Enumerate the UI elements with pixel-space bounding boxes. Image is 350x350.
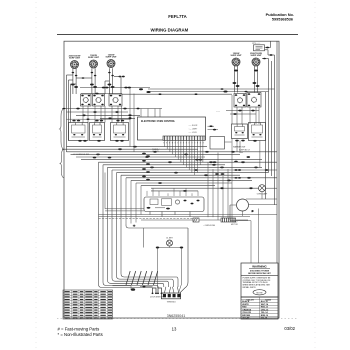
- surface element right-front: [250, 53, 262, 66]
- harness wire: [117, 173, 174, 287]
- switch selector switch left: [69, 123, 89, 141]
- EOC pin drops: [163, 140, 165, 146]
- fold line right: [314, 2, 316, 348]
- left feeder y93.5: [81, 93, 122, 95]
- svg-text:SURF UNIT: SURF UNIT: [105, 57, 117, 59]
- table corner step: [113, 285, 132, 287]
- svg-text:VIO-18: VIO-18: [261, 318, 268, 320]
- EOC pin numbers: [164, 142, 205, 144]
- inter-row links right: [226, 110, 259, 112]
- long run A: [99, 214, 278, 216]
- svg-text:○ OVEN FUSE: ○ OVEN FUSE: [203, 225, 216, 227]
- jog wire x121: [120, 77, 122, 95]
- leads element LR: [91, 68, 93, 94]
- left bus feeders: [66, 75, 68, 152]
- svg-text:13: 13: [172, 327, 177, 332]
- surface element left-rear: [88, 55, 100, 68]
- long run B: [99, 216, 251, 218]
- svg-text:✚: ✚: [133, 224, 136, 228]
- wire run: [117, 172, 269, 174]
- wire row1-row2 right: [258, 107, 260, 124]
- switch warmer switch: [232, 124, 248, 139]
- lamp feed 1: [246, 198, 277, 200]
- svg-text:* = Non-Illustrated Parts: * = Non-Illustrated Parts: [58, 332, 103, 337]
- svg-text:WHT-14: WHT-14: [261, 303, 269, 306]
- relay board: [144, 197, 204, 212]
- switch switch right outer: [249, 123, 266, 141]
- switch infinite switch RF: [247, 93, 261, 108]
- left feeder y87.5: [80, 87, 150, 89]
- color code table: [241, 297, 278, 319]
- svg-text:RED: RED: [242, 307, 247, 309]
- svg-text:NOTE: NOTE: [256, 292, 263, 294]
- left brace 1: [60, 109, 65, 150]
- wire run: [131, 179, 252, 181]
- svg-text:○— LIGHT: ○— LIGHT: [189, 129, 199, 131]
- fold line left: [35, 2, 37, 348]
- left brace 2: [60, 149, 64, 178]
- switch infinite switch RR: [109, 94, 122, 106]
- harness wire: [112, 170, 169, 287]
- wire row1-row2: [117, 106, 119, 123]
- wire row1-row2: [94, 106, 96, 123]
- right bus wires: [268, 59, 270, 173]
- wire chart table: [63, 290, 113, 319]
- wire row1-row2: [87, 106, 89, 123]
- wire run: [67, 146, 208, 148]
- feeder run upper: [148, 88, 275, 90]
- wire row1-row2: [82, 106, 84, 123]
- svg-text:DL MTR: DL MTR: [166, 238, 173, 240]
- right switch drops: [236, 141, 238, 152]
- wire web labels: [153, 151, 157, 153]
- electronic oven control EOC: [138, 117, 206, 140]
- svg-text:VIOLET: VIOLET: [242, 318, 250, 320]
- leads element RR: [108, 68, 110, 94]
- wire row1-row2 right: [236, 107, 238, 124]
- svg-text:#P1—○○: #P1—○○: [252, 42, 261, 45]
- svg-text:WIRING DIAGRAM: WIRING DIAGRAM: [151, 28, 189, 33]
- wire run: [76, 156, 205, 158]
- wire run: [62, 148, 198, 150]
- svg-text:FEFL7TA: FEFL7TA: [168, 14, 187, 19]
- row2 mini labels: [72, 120, 75, 122]
- svg-text:BLACK: BLACK: [242, 300, 250, 303]
- wire row1-row2: [121, 106, 123, 123]
- DL motor drops to block: [157, 249, 159, 289]
- svg-text:BEFORE SERVICING UNIT: BEFORE SERVICING UNIT: [248, 273, 271, 275]
- wire row1-row2 right: [255, 107, 257, 124]
- table cell text marks: [65, 291, 112, 319]
- harness hatch marks: [126, 271, 130, 285]
- svg-text:ORG-16: ORG-16: [261, 309, 269, 311]
- wire run: [141, 185, 215, 187]
- wire row1-row2: [111, 106, 113, 123]
- right area drops: [207, 162, 209, 217]
- svg-text:WARMER SW: WARMER SW: [233, 146, 245, 149]
- short bundle wires ending mid: [125, 178, 127, 225]
- wire run: [112, 169, 277, 171]
- svg-text:ELECTRONIC OVEN CONTROL: ELECTRONIC OVEN CONTROL: [141, 121, 176, 123]
- svg-text:ORANGE: ORANGE: [242, 308, 251, 311]
- switch infinite switch LR: [93, 94, 105, 106]
- surface element right-rear: [105, 54, 117, 67]
- svg-text:○— LOCK: ○— LOCK: [189, 132, 198, 134]
- header rule: [57, 34, 298, 36]
- harness wire: [108, 167, 164, 287]
- dashed run: [99, 218, 194, 220]
- relay bottom runs: [105, 208, 144, 210]
- wire run: [136, 182, 232, 184]
- switch infinite switch RT: [234, 94, 246, 108]
- wire right drop: [231, 95, 233, 124]
- door lock frame: [144, 227, 189, 229]
- leads right element: [233, 66, 235, 93]
- wire row1-row2 right: [249, 107, 251, 124]
- relay bottom stubs: [149, 212, 151, 215]
- harness wire: [99, 162, 153, 288]
- harness wire: [121, 175, 178, 287]
- wire run: [81, 159, 262, 161]
- aux switch box: [210, 137, 225, 150]
- svg-text:5995368536: 5995368536: [272, 18, 293, 22]
- wire P1 to right bus: [265, 47, 271, 49]
- wire run: [108, 166, 263, 168]
- wire run: [151, 190, 198, 192]
- relay feed verticals: [146, 191, 148, 196]
- svg-text:YELLOW: YELLOW: [242, 312, 251, 314]
- svg-text:○—○: ○—○: [216, 111, 220, 113]
- broil element striped: [221, 218, 236, 222]
- oven lamp: [259, 185, 266, 192]
- svg-text:WARNING: WARNING: [252, 265, 267, 269]
- oven fuse: [141, 219, 193, 221]
- wires into EOC top: [129, 88, 131, 147]
- svg-text:TERM BLK: TERM BLK: [167, 301, 177, 303]
- svg-text:Publication No.: Publication No.: [266, 12, 294, 17]
- svg-text:YEL-14: YEL-14: [261, 311, 269, 314]
- convection motor: [237, 199, 249, 211]
- svg-text:OVEN LAMP: OVEN LAMP: [257, 193, 268, 196]
- leads right element: [253, 66, 255, 93]
- switch infinite switch LF: [81, 94, 92, 106]
- note oval: [253, 290, 266, 295]
- feeder run lower: [122, 93, 232, 95]
- diagram outer border: [64, 41, 279, 318]
- svg-text:3N6255041: 3N6255041: [167, 314, 186, 318]
- wire row1-row2: [104, 106, 106, 123]
- svg-text:BLK-15: BLK-15: [261, 301, 269, 303]
- terminal block pin fan: [164, 287, 166, 293]
- svg-text:03/02: 03/02: [284, 326, 295, 331]
- feeder run mid: [148, 91, 269, 93]
- harness wire: [103, 165, 158, 288]
- surface element right-top: [230, 53, 242, 66]
- door switch feed: [140, 286, 153, 288]
- switch switch center-left: [90, 123, 105, 141]
- wire run: [71, 153, 241, 155]
- switch thermostat switch: [111, 123, 129, 141]
- svg-text:BROWN: BROWN: [242, 315, 250, 317]
- wire run: [121, 174, 240, 176]
- svg-text:SURF UNIT: SURF UNIT: [69, 58, 81, 60]
- svg-text:MOTOR: MOTOR: [231, 224, 238, 226]
- wire run: [151, 187, 258, 189]
- svg-text:○— DOOR: ○— DOOR: [189, 125, 198, 127]
- svg-text:BRN-16: BRN-16: [261, 315, 269, 317]
- wire row1-row2: [100, 106, 102, 123]
- wire run: [126, 177, 277, 179]
- svg-text:RED-12: RED-12: [261, 307, 269, 309]
- wire run: [99, 161, 278, 163]
- switch terminal labels: [78, 140, 82, 142]
- svg-text:# = Fast-moving Parts: # = Fast-moving Parts: [58, 327, 100, 332]
- EOC pin strip: [163, 136, 205, 140]
- wire run: [67, 151, 278, 153]
- wire run: [103, 164, 225, 166]
- drops to warning box: [258, 209, 260, 264]
- svg-text:SURF UNIT: SURF UNIT: [230, 55, 242, 57]
- leads element LF: [72, 68, 74, 94]
- warning box: [241, 263, 278, 297]
- wire row1-row2 right: [241, 107, 243, 124]
- svg-text:INSTALL INSTR.: INSTALL INSTR.: [243, 286, 257, 289]
- svg-text:SURF UNIT: SURF UNIT: [250, 55, 262, 57]
- lamp feed 2: [249, 204, 278, 206]
- svg-text:WHITE: WHITE: [242, 304, 249, 306]
- surface element left-front: [69, 55, 81, 68]
- small aux switch right of EOC: [208, 125, 215, 127]
- inter-row links left: [62, 108, 162, 110]
- svg-text:SURF UNIT: SURF UNIT: [88, 57, 100, 59]
- door switch: [153, 288, 157, 294]
- terminal block: [161, 293, 180, 299]
- lamp run right: [266, 187, 277, 189]
- bottom fold dotted line: [57, 318, 298, 320]
